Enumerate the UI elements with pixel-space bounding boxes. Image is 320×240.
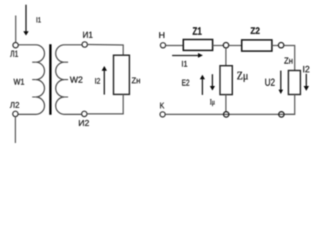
current arrow I2 (right) <box>305 74 307 86</box>
winding W1 waist ticks <box>32 62 36 97</box>
label I2 (left) <box>95 78 100 84</box>
label Л1 <box>10 51 18 57</box>
label I1 (right) <box>182 61 187 67</box>
label E2 <box>182 80 189 86</box>
label Iμ <box>210 99 215 106</box>
terminal H <box>160 43 165 48</box>
label W1 <box>14 79 25 85</box>
wire: node A to Z2 <box>229 45 242 47</box>
label W2 <box>70 77 83 83</box>
winding W2 <box>56 45 82 115</box>
impedance Zμ <box>220 66 232 95</box>
terminal Л2 <box>13 111 18 116</box>
label И2 <box>79 120 89 126</box>
label U2 <box>265 79 274 86</box>
emf arrow E2 (up) <box>201 79 203 95</box>
wire: bottom lead from Л2 <box>14 117 16 143</box>
label I2 (right) <box>303 66 309 72</box>
node C (bottom of Zμ branch) <box>224 112 229 117</box>
core <box>49 44 51 115</box>
terminal K <box>160 112 165 117</box>
terminal И2 <box>82 111 87 116</box>
label H <box>159 32 164 38</box>
wire: Zн bottom to bottom rail corner <box>284 95 295 115</box>
label K <box>160 103 164 109</box>
current arrow Iμ (down) <box>211 74 213 86</box>
label Zн (left) <box>132 78 140 84</box>
label Z1 <box>193 27 202 35</box>
wire: top lead into Л1 <box>15 16 17 43</box>
wire: load bottom to И2 <box>87 94 123 114</box>
current arrow I1 (primary) <box>25 5 27 32</box>
impedance Z2 <box>242 40 272 51</box>
wire: node B to top right corner down to Zн <box>284 46 295 71</box>
magnetizing branch wire top <box>225 48 227 66</box>
wire: Z1 to node A <box>213 45 224 47</box>
wire: secondary top И1 to load <box>87 45 123 56</box>
winding W1 <box>18 45 44 115</box>
current arrow I1 (right) <box>172 55 198 57</box>
current arrow I2 (secondary) <box>103 71 105 95</box>
wire: Z2 to node B <box>272 45 279 47</box>
load Zн (right circuit) <box>288 71 300 95</box>
label I1 (left) <box>37 17 41 22</box>
winding W2 waist ticks <box>64 62 68 97</box>
load Zн (left circuit) <box>114 55 130 94</box>
magnetizing branch wire bottom <box>225 95 227 112</box>
terminal И1 <box>82 42 87 47</box>
label Zμ <box>237 72 248 82</box>
impedance Z1 <box>183 40 212 51</box>
wire: bottom rail K to corner <box>165 113 294 115</box>
node A (top of Zμ branch) <box>223 43 228 48</box>
voltage arrow U2 (down) <box>280 71 282 90</box>
label Z2 <box>251 27 260 34</box>
label Л2 <box>10 102 19 108</box>
label Zн (right) <box>284 58 292 64</box>
label И1 <box>83 32 92 38</box>
wire: H to Z1 <box>166 45 183 47</box>
node D (output bottom) <box>279 112 284 117</box>
node B (output top) <box>278 43 283 48</box>
terminal Л1 <box>13 43 18 48</box>
